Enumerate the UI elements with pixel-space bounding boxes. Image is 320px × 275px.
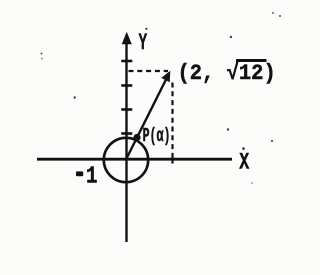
y-axis — [125, 38, 127, 242]
radical overbar — [236, 59, 267, 62]
scan speck above X label — [242, 147, 245, 150]
y-axis arrowhead — [122, 32, 132, 45]
scan speck left middle — [74, 96, 76, 98]
x-axis — [37, 158, 232, 161]
svg-text:Y: Y — [139, 30, 148, 57]
y-axis tick 2 — [121, 108, 132, 111]
dashed vertical projection line x=2 — [171, 83, 173, 155]
y-axis tick 3 — [121, 84, 132, 87]
tick at x=2 on x-axis — [171, 154, 173, 164]
scan speck above Y label — [145, 28, 147, 30]
scan specks top right — [272, 12, 274, 14]
vector OP — [127, 79, 167, 158]
scan speck below label — [227, 128, 229, 130]
label -1 : minus stroke — [76, 171, 83, 176]
scan speck right — [271, 140, 273, 142]
y-axis tick 4 — [121, 60, 132, 63]
svg-text:P(α): P(α) — [143, 125, 171, 147]
y-axis tick 1 — [121, 132, 132, 135]
svg-text:(2, √12): (2, √12) — [178, 60, 276, 86]
svg-text:X: X — [239, 150, 250, 176]
unit circle — [104, 138, 148, 182]
scan speck bottom right — [251, 182, 253, 184]
dashed horizontal projection line y=sqrt12 — [129, 70, 169, 72]
point dot on circle P — [133, 134, 140, 141]
scan speck near top-left — [41, 53, 43, 55]
svg-text:1: 1 — [86, 162, 97, 190]
vector arrowhead — [161, 71, 170, 83]
